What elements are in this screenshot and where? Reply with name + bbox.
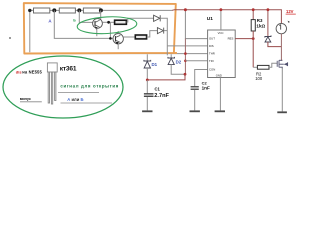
- svg-text:OUT: OUT: [209, 37, 215, 41]
- wire source down: [281, 68, 283, 112]
- transistor Q2: [113, 34, 123, 45]
- node rail R3: [252, 8, 255, 11]
- resistor R row 1: [34, 8, 50, 13]
- diode D2a lower: [157, 28, 163, 34]
- wire TRI to U1: [185, 60, 207, 62]
- wire GND stub U1: [219, 78, 221, 111]
- svg-text:GND: GND: [216, 74, 222, 78]
- wire top supply rail right: [172, 10, 281, 24]
- wire Q2 emitter down: [117, 44, 119, 49]
- node junction 3: [99, 8, 103, 12]
- wire blank line 3: [61, 102, 113, 104]
- svg-text:минус: минус: [20, 97, 31, 101]
- svg-text:2.7nF: 2.7nF: [154, 93, 169, 99]
- node THR: [184, 52, 187, 55]
- wire drain: [280, 34, 283, 61]
- svg-text:U1: U1: [207, 16, 213, 22]
- svg-text:А или Б: А или Б: [67, 97, 83, 102]
- svg-text:RES: RES: [228, 37, 234, 41]
- wire drop to Q2 base: [109, 22, 111, 38]
- resistor R4a: [115, 20, 127, 24]
- stray mark: [9, 37, 11, 39]
- zener D3: [265, 10, 282, 47]
- svg-text:C1: C1: [155, 87, 161, 92]
- node rail zener: [267, 8, 270, 11]
- diode D2 timing: [168, 54, 185, 74]
- capacitor C2: [191, 86, 199, 110]
- ground C1: [142, 110, 152, 112]
- transistor Q3 mosfet: [277, 60, 287, 68]
- wire node A drop to Q2 base: [54, 10, 113, 38]
- wire R4b to D2a: [147, 31, 158, 37]
- node TRI: [184, 60, 187, 63]
- node junction 1: [52, 8, 56, 12]
- wire RES pin to R3 node: [235, 38, 253, 40]
- wire VCC drop at x185: [185, 10, 207, 39]
- wire Q1 to R4a: [102, 21, 114, 23]
- wire 12V underline: [286, 13, 296, 15]
- resistor R2: [253, 63, 277, 69]
- svg-text:VCC: VCC: [218, 31, 224, 35]
- node Q1 output: [107, 21, 110, 24]
- resistor R3: [251, 10, 255, 68]
- ground Q3: [277, 111, 287, 113]
- node left corner: [28, 9, 31, 12]
- wire blank line 1: [20, 101, 42, 103]
- svg-text:сигнал для открытия: сигнал для открытия: [60, 84, 119, 89]
- resistor R row 3: [83, 8, 100, 13]
- green ellipse highlight top: [77, 15, 137, 35]
- wire left edge drop: [29, 10, 31, 52]
- node VCC U1: [220, 8, 223, 11]
- node C1 top: [146, 79, 149, 82]
- svg-text:Б: Б: [73, 18, 76, 22]
- wire top supply rail left: [30, 9, 172, 11]
- wire R4a to D1a: [126, 18, 153, 22]
- transistor Q1: [93, 19, 103, 30]
- resistor R row 2: [59, 8, 75, 13]
- svg-text:1nF: 1nF: [202, 86, 210, 91]
- wire Q2 top stub: [117, 31, 119, 34]
- green ellipse highlight bottom: [3, 56, 123, 118]
- svg-text:THR: THR: [209, 52, 215, 56]
- diode D1a top: [154, 15, 161, 21]
- wire C1 node red: [147, 74, 185, 80]
- wire D2a cathode to bus: [164, 30, 168, 32]
- capacitor C1: [144, 80, 154, 111]
- svg-text:TRI: TRI: [209, 59, 214, 63]
- IC U1: [208, 30, 236, 78]
- wire x185 lower vertical: [184, 39, 186, 75]
- svg-text:12V: 12V: [286, 9, 294, 14]
- wire Q1 collector stub down: [96, 28, 98, 36]
- resistor R4b: [135, 35, 146, 39]
- node rail x185: [184, 8, 187, 11]
- load M1 circle: [276, 21, 290, 34]
- wire D1a cathode to bus: [160, 18, 167, 55]
- transistor KT361 package: [47, 63, 57, 104]
- svg-text:100: 100: [255, 76, 263, 81]
- svg-text:R3: R3: [257, 18, 263, 23]
- node junction 2: [77, 8, 81, 12]
- wire CON to U1: [195, 70, 208, 87]
- wire Q2 to R4b: [123, 36, 135, 38]
- svg-text:кт361: кт361: [60, 65, 77, 72]
- svg-text:D2: D2: [176, 59, 182, 64]
- wire DIS line to U1: [167, 45, 207, 47]
- svg-text:D1: D1: [152, 62, 158, 67]
- wire node B drop to Q1 base: [79, 10, 93, 22]
- wire Q1 top stub: [100, 10, 102, 20]
- ground C2: [190, 110, 200, 112]
- svg-text:1kΩ: 1kΩ: [256, 24, 265, 29]
- wire VCC stub U1: [220, 10, 222, 30]
- wire blank line 2: [58, 92, 99, 94]
- node RES R3: [252, 37, 255, 40]
- ground U1: [215, 110, 225, 112]
- svg-text:на NE555: на NE555: [22, 70, 42, 75]
- diode D1 timing: [144, 54, 151, 80]
- orange highlight box: [24, 3, 177, 53]
- node D-junction: [184, 73, 187, 76]
- wire ground bus (hidden under orange highlight at left): [30, 53, 208, 55]
- svg-text:DIS: DIS: [209, 44, 214, 48]
- node Q2 base: [109, 37, 112, 40]
- svg-text:CON: CON: [209, 68, 215, 72]
